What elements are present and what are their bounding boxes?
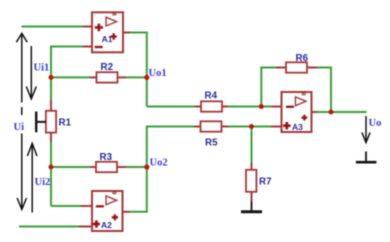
wire R6 feedback right vertical	[330, 68, 332, 113]
wire A3 output to Uo	[317, 111, 367, 113]
wire A1 output	[130, 32, 148, 34]
svg-text:Ui2: Ui2	[35, 177, 51, 188]
svg-text:A2: A2	[101, 220, 112, 230]
wire R3 right to node Uo2	[126, 166, 147, 168]
wire R7 top	[251, 127, 253, 164]
wire R2 left	[51, 76, 90, 78]
ground at output Uo	[356, 152, 377, 163]
node output Uo / R6	[329, 110, 334, 115]
svg-text:R6: R6	[296, 53, 309, 64]
wire R2 right to node Uo1	[126, 76, 147, 78]
wire R6 left	[260, 67, 276, 69]
resistor R1	[46, 100, 56, 142]
svg-text:R7: R7	[259, 177, 272, 188]
svg-text:R5: R5	[205, 138, 218, 149]
resistor R5	[194, 121, 228, 131]
op-amp A3	[272, 92, 317, 132]
op-amp A2	[79, 191, 130, 231]
node R1 bottom / R3 / A2- junction	[49, 165, 54, 170]
svg-text:Uo1: Uo1	[149, 68, 167, 79]
svg-text:R1: R1	[59, 118, 72, 129]
resistor R2	[90, 72, 126, 82]
wire left vertical bus	[50, 46, 52, 207]
wire A2 output	[130, 211, 148, 213]
resistor R3	[90, 162, 126, 172]
tick mark at R1	[36, 112, 46, 133]
wire bottom input to A2 +	[19, 226, 79, 228]
node A3 inverting input / R4 / R6	[259, 104, 264, 109]
svg-text:A3: A3	[292, 122, 303, 132]
wire R3 left	[51, 166, 90, 168]
wire R4 right to A3 -	[228, 106, 272, 108]
resistor R6	[276, 62, 317, 72]
wire A1 - input elbow	[51, 46, 85, 48]
wire R6 feedback left vertical	[260, 68, 262, 107]
op-amp A1	[83, 12, 130, 52]
node Uo2	[144, 164, 149, 169]
wire top input to A1 +	[22, 26, 86, 28]
svg-text:Ui: Ui	[14, 122, 25, 133]
node Uo1	[144, 75, 149, 80]
node R5 / R7	[249, 124, 254, 129]
arrow Uo	[362, 116, 370, 143]
wire vertical Uo1 to R4	[146, 32, 148, 107]
node R1 top / R2 / A1- junction	[49, 75, 54, 80]
arrow Ui double-headed	[16, 33, 27, 209]
resistor R7	[246, 163, 256, 202]
resistor R4	[195, 101, 228, 111]
wire R6 right	[317, 67, 332, 69]
svg-text:Ui1: Ui1	[34, 63, 50, 74]
ground below R7	[241, 202, 262, 212]
svg-text:Uo: Uo	[369, 118, 382, 129]
arrow Ui2	[27, 143, 37, 212]
svg-text:R4: R4	[205, 91, 218, 102]
wire R5 right to A3 +	[228, 126, 272, 128]
svg-text:A1: A1	[102, 34, 113, 44]
wire vertical R5 to Uo2 to A2 output	[146, 126, 148, 212]
arrow Ui1	[26, 46, 36, 99]
svg-text:Uo2: Uo2	[150, 158, 168, 169]
svg-text:R3: R3	[100, 152, 113, 163]
wire A2 - input	[51, 205, 81, 207]
wire R4 left	[147, 106, 195, 108]
wire R5 left	[147, 126, 194, 128]
svg-text:R2: R2	[101, 62, 114, 73]
